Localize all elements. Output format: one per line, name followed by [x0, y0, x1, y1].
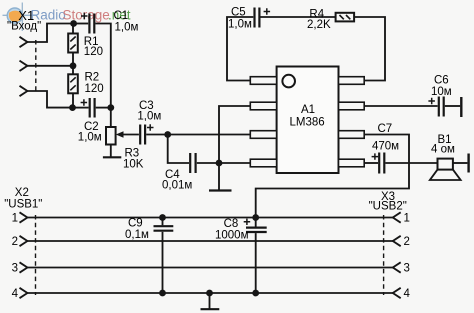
- wire IC pin 6 to power line: [256, 135, 409, 218]
- node H C9 top: [159, 214, 166, 221]
- connector X1 boundary dashed line: [35, 40, 37, 93]
- svg-text:1000м: 1000м: [215, 230, 249, 242]
- wire IC pin 1 up to C5: [227, 17, 253, 81]
- svg-text:"Вход": "Вход": [7, 21, 41, 33]
- wire C5 to R4: [261, 16, 336, 18]
- connector X3 pin 2: [393, 236, 401, 246]
- connector X2 pin 2: [20, 236, 28, 246]
- IC pin box right 2: [339, 102, 365, 110]
- wire USB line 3: [27, 267, 392, 269]
- ground under node F: [209, 189, 232, 191]
- capacitor C1: [81, 13, 94, 34]
- node I C9 bottom: [159, 290, 166, 297]
- ground under R3: [103, 156, 121, 158]
- watermark RadioStorage.net logo: [3, 3, 131, 32]
- svg-text:10K: 10K: [123, 159, 144, 171]
- IC pin box right 4: [339, 159, 365, 167]
- svg-text:R2: R2: [85, 72, 100, 84]
- wire USB line 1: [27, 217, 392, 219]
- connector X1 pin 1: [20, 37, 28, 47]
- svg-text:4 ом: 4 ом: [431, 143, 455, 155]
- IC pin box left 2: [250, 102, 276, 110]
- svg-text:"USB2": "USB2": [369, 201, 407, 213]
- output terminal bar: [460, 97, 462, 117]
- connector X1 pin 3: [20, 86, 28, 96]
- capacitor C8: [244, 219, 267, 232]
- svg-text:3: 3: [12, 263, 18, 275]
- connector X3 pin 1: [393, 212, 401, 222]
- svg-text:1: 1: [12, 213, 18, 225]
- wire R3 to ground: [110, 145, 112, 157]
- svg-text:1,0м: 1,0м: [137, 111, 161, 123]
- node F: [216, 160, 223, 167]
- svg-text:2,2K: 2,2K: [307, 19, 331, 31]
- wire line4 to ground: [209, 293, 211, 309]
- capacitor C2: [81, 98, 95, 118]
- wire R1 to node B: [72, 53, 74, 66]
- wire X1 pin1 to node A: [27, 24, 73, 43]
- svg-text:R3: R3: [125, 147, 140, 159]
- connector X3 pin 3: [393, 262, 401, 272]
- wire node A to R1: [72, 24, 74, 34]
- svg-text:X2: X2: [15, 187, 29, 199]
- svg-text:0,1м: 0,1м: [125, 229, 149, 241]
- svg-text:"USB1": "USB1": [4, 198, 42, 210]
- IC A1 pin 1 mark: [282, 75, 295, 88]
- node J ground tap: [206, 290, 213, 297]
- wire IC pin 5 output to C7: [364, 162, 378, 164]
- capacitor C4: [190, 153, 195, 173]
- node C: [69, 104, 76, 111]
- wire C9 top: [162, 218, 164, 226]
- wire node F to IC pin 4: [219, 162, 250, 164]
- wire node C to C2: [73, 107, 89, 109]
- capacitor C5: [255, 8, 271, 28]
- connector X2 boundary dashed line: [35, 215, 37, 295]
- wire C9 bottom: [162, 232, 164, 293]
- connector X2 pin 3: [20, 262, 28, 272]
- resistor R4: [336, 13, 355, 22]
- svg-text:1,0м: 1,0м: [228, 18, 252, 30]
- wire node D to R3: [110, 108, 112, 127]
- node D: [107, 104, 114, 111]
- wire node E to IC pin 3: [168, 134, 251, 136]
- potentiometer R3: [106, 127, 139, 145]
- wire node E down to C4: [168, 135, 189, 164]
- capacitor C7: [372, 153, 385, 174]
- svg-text:2: 2: [404, 236, 410, 248]
- svg-text:4: 4: [404, 288, 411, 300]
- wire C2 to node D: [96, 107, 111, 109]
- svg-text:0,01м: 0,01м: [162, 179, 192, 191]
- IC pin box right 3: [339, 131, 365, 139]
- node E: [164, 131, 171, 138]
- IC pin box left 3: [250, 131, 276, 139]
- wire C3 to node E: [146, 134, 168, 136]
- wire X1 pin2 to node B: [27, 65, 73, 67]
- svg-text:10м: 10м: [431, 86, 452, 98]
- wire C8 top: [255, 218, 257, 227]
- IC pin box left 1: [250, 77, 276, 85]
- wire node A to C1: [74, 23, 89, 25]
- svg-text:120: 120: [85, 83, 104, 95]
- wire C1 to R3 top: [95, 24, 110, 108]
- IC pin box left 4: [250, 159, 276, 167]
- svg-text:C1: C1: [114, 10, 129, 22]
- wire C4 to node F: [197, 162, 219, 164]
- svg-text:2: 2: [12, 236, 18, 248]
- node A: [70, 20, 77, 27]
- svg-text:C5: C5: [231, 6, 246, 18]
- svg-text:120: 120: [84, 46, 103, 58]
- wire C8 bottom: [255, 233, 257, 293]
- ground at bottom: [201, 308, 220, 310]
- wire C6 to output terminal: [445, 105, 460, 107]
- connector X2 pin 4: [20, 288, 28, 298]
- capacitor C3: [140, 124, 153, 144]
- IC A1 LM386 body: [277, 67, 339, 174]
- svg-text:C8: C8: [224, 218, 239, 230]
- resistor R1: [68, 34, 78, 53]
- wire IC pin 7 to C6: [364, 105, 437, 107]
- svg-text:C6: C6: [434, 74, 449, 86]
- wire node B to R2: [72, 66, 74, 75]
- wire USB line 2: [27, 240, 392, 242]
- wire USB line 4: [27, 292, 392, 294]
- capacitor C9: [154, 226, 174, 231]
- wire IC pin 2 down through node F to ground: [219, 106, 250, 190]
- connector X3 pin numbers: [404, 213, 411, 301]
- wire R2 to node C: [72, 93, 74, 107]
- svg-text:3: 3: [404, 263, 410, 275]
- node B: [70, 62, 77, 69]
- svg-text:4: 4: [12, 288, 19, 300]
- speaker B1: [430, 159, 461, 180]
- svg-text:Storage: Storage: [63, 8, 110, 23]
- connector X3 boundary dashed line: [383, 215, 385, 295]
- connector X1 pin 2: [20, 61, 28, 71]
- svg-text:470м: 470м: [372, 140, 399, 152]
- speaker terminal bar: [467, 154, 469, 173]
- svg-text:1,0м: 1,0м: [115, 21, 139, 33]
- wire C7 to speaker: [385, 162, 437, 164]
- connector X3 pin 4: [393, 288, 401, 298]
- capacitor C6: [428, 97, 443, 117]
- svg-text:A1: A1: [301, 104, 315, 116]
- svg-text:LM386: LM386: [290, 116, 325, 128]
- node K C8 bottom: [252, 290, 259, 297]
- svg-text:C9: C9: [128, 218, 143, 230]
- svg-text:1: 1: [404, 213, 410, 225]
- IC pin box right 1: [339, 77, 365, 85]
- connector X2 pin numbers: [12, 213, 19, 301]
- connector X2 pin 1: [20, 212, 28, 222]
- wire R4 to IC pin 8: [354, 17, 385, 81]
- svg-text:C7: C7: [378, 123, 393, 135]
- svg-text:1,0м: 1,0м: [78, 131, 102, 143]
- resistor R2: [68, 74, 78, 93]
- wire X1 pin3 to node C: [27, 91, 72, 108]
- wire speaker to terminal: [453, 162, 468, 164]
- node G power on line 1: [252, 214, 259, 221]
